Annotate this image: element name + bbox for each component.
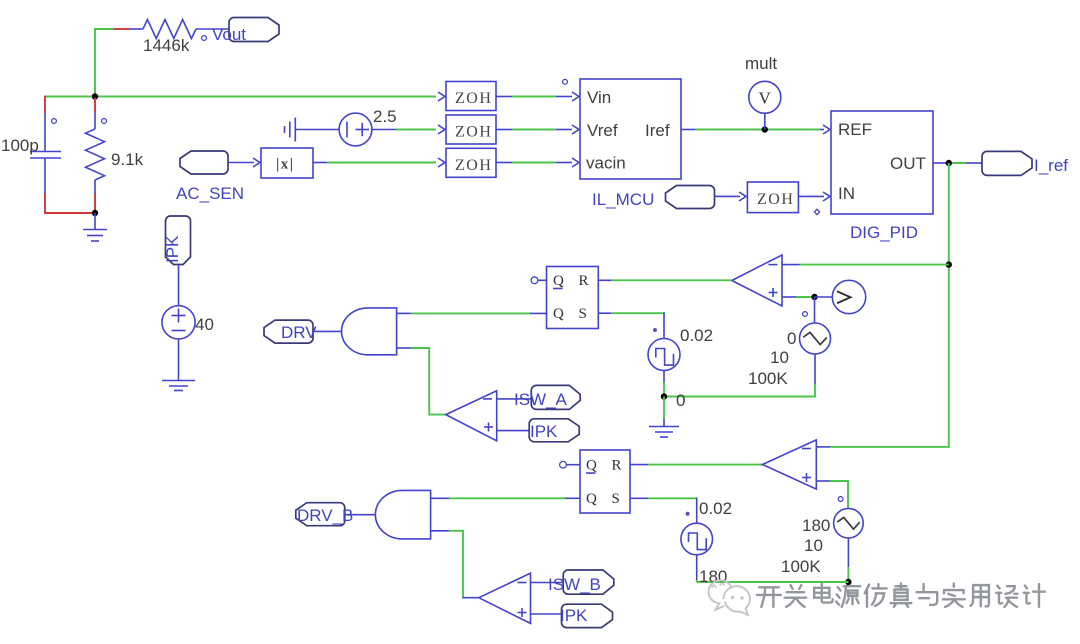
flipflop FF1	[547, 267, 599, 329]
resistor R2 9.1k	[86, 129, 105, 180]
wire source to ground	[178, 339, 180, 381]
watermark logo bubbles	[709, 580, 750, 615]
char zhen	[891, 584, 912, 607]
wire CMP4 plus to S3	[816, 481, 848, 509]
svg-text:R: R	[612, 458, 622, 474]
label tag I_ref	[982, 151, 1032, 175]
svg-text:mult: mult	[745, 54, 777, 73]
wire FF1 Q to AND1	[397, 312, 547, 314]
wire CMP2 plus to IPK	[497, 430, 530, 432]
wire CMP4 minus stub	[816, 446, 830, 448]
wire capacitor branch bottom	[45, 158, 94, 213]
wire ground stub	[94, 213, 96, 230]
flipflop FF2	[580, 450, 630, 513]
svg-text:ZOH: ZOH	[455, 90, 492, 107]
wire to voltmeter V2	[815, 296, 834, 298]
svg-text:OUT: OUT	[890, 154, 926, 173]
wire FF2 S to SQ2	[630, 498, 698, 524]
pin stub FF2 nQ with circle	[560, 461, 580, 468]
svg-text:ZOH: ZOH	[455, 157, 492, 174]
label tag DRV	[264, 320, 313, 343]
node marker above SQ1	[653, 328, 657, 332]
pin stub FF1 nQ with circle	[531, 277, 546, 284]
char dian	[814, 584, 833, 603]
wire resistor branch top	[94, 98, 96, 130]
wire capacitor branch top	[44, 96, 46, 152]
and gate AND1	[342, 308, 397, 355]
label tag Vout	[229, 18, 279, 42]
node marker above Vin	[563, 79, 568, 84]
comparator CMP2	[446, 391, 497, 441]
wire voltmeter stem	[764, 113, 766, 130]
wire AND2 lower input from CMP3	[431, 531, 479, 598]
node junction SQ1 ground	[661, 393, 667, 399]
comparator CMP3	[479, 573, 531, 623]
node marker 9.1k hot point	[102, 119, 107, 124]
node marker cap hot point	[52, 119, 57, 124]
node marker above S1	[803, 312, 808, 317]
wire junction to ground G3	[663, 397, 665, 420]
svg-text:ZOH: ZOH	[757, 191, 794, 208]
label tag AC_SEN	[180, 151, 228, 174]
arrow into abs block	[253, 158, 260, 167]
svg-text:DRV_B: DRV_B	[297, 506, 353, 525]
wire CMP1 out to FF1 R	[598, 279, 732, 281]
ground G3	[649, 427, 679, 438]
svg-text:0.02: 0.02	[699, 499, 732, 518]
node junction bottom right	[845, 579, 851, 585]
wire CMP3 plus to IPK B	[531, 613, 562, 615]
wire CMP3 minus to ISW_B	[531, 582, 564, 584]
node junction OUT	[946, 160, 952, 166]
comparator CMP1	[732, 255, 782, 306]
wire FF2 R to CMP4	[630, 464, 763, 466]
zoh block Z2	[446, 115, 496, 144]
wire AND1 output to DRV	[313, 330, 342, 332]
svg-text:ZOH: ZOH	[455, 124, 492, 141]
wire FF1 S to SQ1	[598, 312, 665, 338]
voltmeter V2 rotated	[832, 280, 865, 313]
ground G4 rotated	[285, 118, 296, 142]
svg-text:180: 180	[802, 516, 830, 535]
svg-text:IPK: IPK	[530, 422, 558, 441]
arrow into ZOH2	[438, 125, 445, 134]
label tag ISW_B	[563, 570, 614, 594]
svg-text:DRV: DRV	[281, 323, 317, 342]
wire S3 bottom	[847, 538, 849, 582]
char she	[996, 586, 1017, 607]
resistor R1 1446k	[143, 20, 196, 39]
subcircuit block IL_MCU	[580, 79, 681, 179]
wire IL_MCU tag to ZOH4	[715, 192, 747, 201]
svg-text:Vref: Vref	[587, 121, 618, 140]
svg-text:0.02: 0.02	[680, 326, 713, 345]
svg-text:1446k: 1446k	[143, 36, 190, 55]
ground G2	[162, 381, 195, 391]
char yong	[970, 585, 989, 606]
svg-text:100K: 100K	[748, 369, 788, 388]
wire CMP1 plus input	[782, 296, 815, 298]
wire CMP1 minus input	[782, 264, 949, 266]
wire source to ZOH2	[372, 129, 436, 131]
svg-text:100K: 100K	[781, 557, 821, 576]
svg-text:ISW_A: ISW_A	[514, 390, 568, 409]
wire FF2 Q to AND2	[431, 497, 580, 499]
source V1 2.5	[339, 113, 372, 146]
wire main net y=96.5	[45, 96, 436, 98]
svg-text:AC_SEN: AC_SEN	[176, 184, 244, 203]
wire Vout branch	[95, 29, 229, 97]
wire ground to source	[295, 129, 339, 131]
svg-text:V: V	[759, 89, 772, 108]
node junction mult	[762, 126, 768, 132]
svg-text:0: 0	[787, 329, 796, 348]
wire ZOH4 to IN	[798, 192, 830, 201]
svg-text:Q: Q	[553, 273, 564, 289]
wire ZOH2 to Vref	[496, 125, 579, 134]
wire AND2 output to DRV_B	[345, 514, 375, 516]
wire AND1 lower input from CMP2	[397, 348, 446, 415]
svg-text:IPK: IPK	[560, 606, 588, 625]
svg-text:IN: IN	[838, 184, 855, 203]
label tag DRV_B	[296, 503, 345, 526]
source sine S1	[800, 323, 831, 354]
subcircuit block DIG_PID	[831, 111, 933, 214]
node marker above SQ2	[686, 512, 690, 516]
label tag IPK B	[562, 604, 613, 627]
svg-text:IL_MCU: IL_MCU	[592, 190, 654, 209]
zoh block Z4	[747, 182, 798, 213]
arrow into ZOH3	[438, 158, 445, 167]
watermark text (vector CJK approximation)	[757, 584, 1045, 607]
label tag IPK vertical	[166, 216, 191, 265]
and gate AND2	[375, 490, 430, 539]
char ji	[1024, 584, 1045, 607]
label tag IL_MCU	[666, 186, 715, 209]
source V2 40	[162, 306, 195, 339]
wire AC_SEN to abs	[228, 162, 254, 164]
char guan	[784, 585, 806, 607]
wire junction to sine S1	[814, 297, 816, 323]
svg-text:DIG_PID: DIG_PID	[850, 223, 918, 242]
svg-text:ISW_B: ISW_B	[548, 575, 601, 594]
svg-text:S: S	[579, 306, 587, 322]
char kai	[757, 587, 781, 607]
wire IPK to source	[178, 265, 180, 306]
capacitor C1 100p	[30, 152, 61, 159]
node marker diamond	[814, 209, 819, 214]
label tag ISW_A	[531, 385, 580, 409]
char yu	[916, 584, 937, 605]
wire resistor branch bottom	[94, 180, 96, 213]
voltmeter V mult	[749, 81, 781, 113]
comparator CMP4	[763, 440, 817, 489]
zoh block Z3	[446, 148, 496, 177]
svg-text:Q: Q	[553, 306, 564, 322]
svg-text:|x|: |x|	[276, 157, 295, 173]
char shi	[943, 584, 965, 607]
wire OUT to I_ref	[933, 162, 982, 164]
svg-text:Q: Q	[586, 458, 597, 474]
svg-text:Iref: Iref	[645, 121, 670, 140]
wire ZOH1 to Vin	[496, 92, 579, 101]
node junction CMP1 branch	[946, 261, 952, 267]
svg-text:vacin: vacin	[586, 154, 626, 173]
svg-text:40: 40	[195, 315, 214, 334]
source square SQ1	[648, 339, 680, 371]
arrow into ZOH1	[438, 92, 445, 101]
svg-text:Vin: Vin	[587, 88, 611, 107]
wire abs to ZOH3	[313, 162, 436, 164]
svg-text:IPK: IPK	[163, 235, 182, 263]
node junction CMP1 plus	[811, 294, 817, 300]
svg-text:Vout: Vout	[212, 25, 246, 44]
wire SQ2 bottom	[696, 555, 698, 582]
wire ZOH3 to vacin	[496, 158, 579, 167]
source sine S3	[834, 508, 864, 538]
node junction divider bottom	[92, 210, 98, 216]
svg-text:9.1k: 9.1k	[111, 150, 144, 169]
svg-text:100p: 100p	[1, 136, 39, 155]
svg-text:0: 0	[676, 391, 685, 410]
wire S1 bottom	[664, 354, 815, 397]
label tag IPK A	[529, 419, 579, 442]
char fang	[865, 584, 887, 607]
svg-text:Q: Q	[586, 491, 597, 507]
svg-text:R: R	[579, 273, 589, 289]
ground G1	[83, 230, 107, 242]
node marker above S3	[838, 497, 843, 502]
node junction at divider top	[92, 93, 98, 99]
wire main vertical feedback	[830, 163, 949, 447]
svg-text:REF: REF	[838, 120, 872, 139]
svg-text:I_ref: I_ref	[1034, 156, 1068, 175]
svg-text:10: 10	[804, 536, 823, 555]
abs block |x|	[261, 148, 313, 178]
wire CMP2 minus to ISW_A	[497, 398, 532, 400]
node marker resistor hot point	[202, 36, 207, 41]
source square SQ2	[681, 523, 713, 555]
char yuan	[836, 586, 860, 607]
svg-text:S: S	[612, 491, 620, 507]
svg-text:10: 10	[770, 348, 789, 367]
wire bottom horizontal	[697, 581, 849, 583]
svg-text:2.5: 2.5	[373, 107, 397, 126]
wire SQ1 bottom	[663, 371, 665, 397]
zoh block Z1	[446, 82, 496, 111]
wire Iref to REF	[681, 125, 830, 134]
